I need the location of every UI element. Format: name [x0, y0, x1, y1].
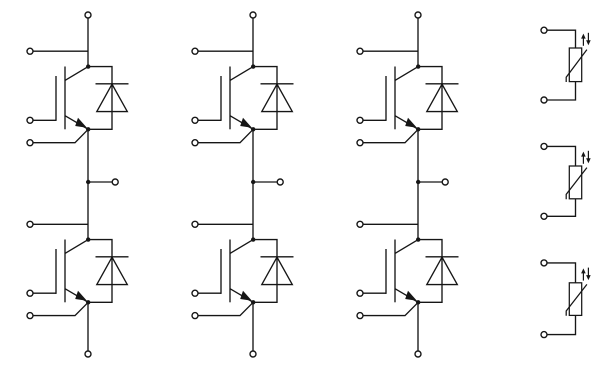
- terminal P1 (DC+ collector Q1): [85, 12, 91, 18]
- wire: [418, 181, 442, 183]
- diode D5: [426, 84, 459, 112]
- wire: [547, 315, 575, 334]
- terminal G3 (gate Q3): [192, 117, 198, 123]
- diode D3: [261, 84, 294, 112]
- node (phase output U3): [416, 180, 420, 184]
- wire (diode branch of D4): [253, 240, 277, 303]
- thermistor R1 (NTC): [566, 48, 587, 82]
- terminal T1b (thermistor 1 pin 2): [541, 97, 547, 103]
- wire: [88, 181, 112, 183]
- wire: [363, 302, 418, 315]
- node (collector Q1): [86, 64, 90, 68]
- wire: [363, 50, 418, 52]
- terminal E1aux (auxiliary emitter Q1): [27, 140, 33, 146]
- terminal C1aux2 (auxiliary collector Q2): [27, 221, 33, 227]
- terminal P2 (DC+ collector Q3): [250, 12, 256, 18]
- wire: [198, 119, 221, 121]
- wire: [33, 302, 88, 315]
- wire: [547, 199, 575, 217]
- terminal G5 (gate Q5): [357, 117, 363, 123]
- thermistor R2 (NTC): [566, 166, 587, 199]
- node (emitter Q2): [86, 300, 90, 304]
- terminal T2a (thermistor 2 pin 1): [541, 143, 547, 149]
- terminal E4aux (auxiliary emitter Q4): [192, 313, 198, 319]
- wire: [363, 129, 418, 142]
- wire (diode branch of D6): [418, 240, 442, 303]
- IGBT Q2: [56, 240, 88, 303]
- terminal T3a (thermistor 3 pin 1): [541, 260, 547, 266]
- terminal G4 (gate Q4): [192, 290, 198, 296]
- wire (diode branch of D3): [253, 67, 277, 130]
- terminal G2 (gate Q2): [27, 290, 33, 296]
- wire: [547, 263, 575, 283]
- wire: [33, 223, 88, 225]
- arrow up (temperature): [581, 268, 586, 280]
- terminal T1a (thermistor 1 pin 1): [541, 27, 547, 33]
- terminal AC1 (phase output): [112, 179, 118, 185]
- terminal C3aux2 (auxiliary collector Q6): [357, 221, 363, 227]
- node (emitter Q1): [86, 127, 90, 131]
- node (collector Q5): [416, 64, 420, 68]
- wire: [252, 302, 254, 351]
- wire: [87, 18, 89, 66]
- wire: [87, 302, 89, 351]
- wire: [547, 30, 575, 48]
- wire: [363, 223, 418, 225]
- node (emitter Q3): [251, 127, 255, 131]
- arrow up (temperature): [581, 34, 586, 46]
- wire: [417, 302, 419, 351]
- wire: [252, 18, 254, 66]
- arrow down (temperature): [586, 268, 591, 281]
- terminal AC2 (phase output): [277, 179, 283, 185]
- wire (diode branch of D5): [418, 67, 442, 130]
- wire: [33, 129, 88, 142]
- node (collector Q3): [251, 64, 255, 68]
- wire: [33, 292, 56, 294]
- terminal T3b (thermistor 3 pin 2): [541, 332, 547, 338]
- wire: [198, 129, 253, 142]
- wire: [363, 119, 386, 121]
- terminal N3 (DC- emitter Q6): [415, 351, 421, 357]
- terminal C3aux (auxiliary collector Q5): [357, 48, 363, 54]
- wire: [363, 292, 386, 294]
- wire: [87, 129, 89, 239]
- thermistor R3 (NTC): [566, 283, 587, 316]
- terminal E5aux (auxiliary emitter Q5): [357, 140, 363, 146]
- terminal G1 (gate Q1): [27, 117, 33, 123]
- node (collector Q6): [416, 237, 420, 241]
- terminal E3aux (auxiliary emitter Q3): [192, 140, 198, 146]
- wire: [547, 82, 575, 100]
- wire: [547, 146, 575, 166]
- wire: [417, 18, 419, 66]
- wire: [252, 129, 254, 239]
- IGBT Q4: [221, 240, 253, 303]
- node (phase output U2): [251, 180, 255, 184]
- node (emitter Q6): [416, 300, 420, 304]
- IGBT Q1: [56, 67, 88, 130]
- diode D6: [426, 257, 459, 285]
- node (collector Q2): [86, 237, 90, 241]
- diode D4: [261, 257, 294, 285]
- node (collector Q4): [251, 237, 255, 241]
- wire: [33, 50, 88, 52]
- terminal N1 (DC- emitter Q2): [85, 351, 91, 357]
- wire: [253, 181, 277, 183]
- IGBT Q3: [221, 67, 253, 130]
- diode D1: [96, 84, 129, 112]
- wire: [417, 129, 419, 239]
- IGBT Q6: [386, 240, 418, 303]
- terminal C2aux (auxiliary collector Q3): [192, 48, 198, 54]
- wire: [33, 119, 56, 121]
- wire: [198, 292, 221, 294]
- terminal C1aux (auxiliary collector Q1): [27, 48, 33, 54]
- terminal E6aux (auxiliary emitter Q6): [357, 313, 363, 319]
- terminal AC3 (phase output): [442, 179, 448, 185]
- terminal N2 (DC- emitter Q4): [250, 351, 256, 357]
- arrow up (temperature): [581, 152, 586, 164]
- IGBT Q5: [386, 67, 418, 130]
- diode D2: [96, 257, 129, 285]
- node (phase output U1): [86, 180, 90, 184]
- wire: [198, 302, 253, 315]
- terminal E2aux (auxiliary emitter Q2): [27, 313, 33, 319]
- wire: [198, 223, 253, 225]
- node (emitter Q5): [416, 127, 420, 131]
- terminal C2aux2 (auxiliary collector Q4): [192, 221, 198, 227]
- arrow down (temperature): [586, 151, 591, 164]
- terminal P3 (DC+ collector Q5): [415, 12, 421, 18]
- terminal G6 (gate Q6): [357, 290, 363, 296]
- arrow down (temperature): [586, 33, 591, 46]
- wire: [198, 50, 253, 52]
- wire (diode branch of D1): [88, 67, 112, 130]
- node (emitter Q4): [251, 300, 255, 304]
- terminal T2b (thermistor 2 pin 2): [541, 213, 547, 219]
- wire (diode branch of D2): [88, 240, 112, 303]
